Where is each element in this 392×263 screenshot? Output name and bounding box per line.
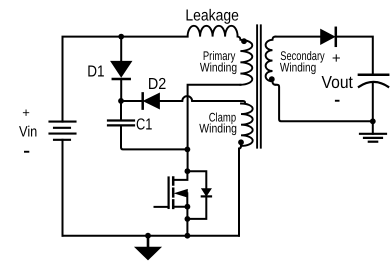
transistor Q1 MOSFET gate bar — [168, 178, 170, 208]
node top D1 junction — [118, 34, 124, 40]
wire left rail bottom — [62, 140, 64, 236]
svg-text:Winding: Winding — [280, 61, 316, 75]
wire top rail from Vin+ to leakage — [63, 37, 188, 122]
svg-text:D1: D1 — [87, 64, 104, 81]
node ground junction — [145, 233, 151, 239]
diode body (of MOSFET) — [202, 189, 211, 196]
wire secondary top to output diode — [276, 36, 321, 38]
capacitor output polarized — [359, 74, 388, 77]
diode D1 vertical — [120, 37, 122, 61]
wire clamp bottom to bottom rail — [239, 146, 241, 236]
wire D2 to clamp with hop over drain line — [159, 96, 245, 103]
polarity dot clamp — [238, 139, 244, 145]
diode D2 horizontal pointing left — [141, 93, 144, 108]
svg-text:D2: D2 — [148, 76, 166, 93]
node source — [185, 204, 191, 210]
ground IEC output — [360, 133, 386, 135]
svg-text:+: + — [22, 105, 30, 120]
wire primary bottom to drain vertical — [188, 85, 241, 170]
transistor Q1 MOSFET source lead — [173, 206, 187, 208]
svg-text:C1: C1 — [136, 117, 152, 134]
wire body diode to source node — [187, 196, 206, 219]
transistor Q1 MOSFET channel segments — [172, 178, 175, 185]
wire drain node to body diode — [187, 171, 206, 188]
wire D2 branch — [121, 100, 143, 102]
svg-text:Winding: Winding — [200, 61, 237, 75]
battery Vin — [50, 122, 76, 140]
wire bottom rail — [63, 235, 240, 237]
ground main (filled triangle) — [147, 236, 150, 247]
junction and polarity dots — [118, 34, 376, 239]
diode output (pointing right) — [321, 30, 335, 45]
node drain / body diode — [185, 168, 191, 174]
polarity dot secondary — [269, 76, 275, 82]
transistor Q1 MOSFET drain lead — [173, 171, 187, 180]
node source/bottom rail — [185, 233, 191, 239]
wire source down to bottom rail — [186, 207, 188, 236]
svg-text:Vout: Vout — [322, 72, 354, 92]
label Vout minus — [335, 100, 340, 102]
svg-text:Winding: Winding — [199, 121, 237, 135]
svg-text:+: + — [332, 50, 341, 67]
inductor primary winding (vertical, humps bulge right) — [238, 37, 253, 85]
node body diode bottom — [185, 216, 191, 222]
transistor Q1 MOSFET gate lead — [155, 206, 169, 208]
clamp winding inductor (vertical, humps bulge right) — [241, 104, 253, 146]
label Vin minus — [24, 151, 29, 153]
node D1/D2/C1 junction — [118, 98, 124, 104]
svg-text:Vin: Vin — [19, 124, 37, 141]
secondary winding inductor (vertical, humps bulge left) — [266, 37, 276, 85]
inductor leakage winding (4 humps) — [188, 26, 238, 37]
polarity dot primary — [241, 38, 247, 44]
transistor Q1 MOSFET body arrow — [175, 190, 187, 197]
svg-text:Leakage: Leakage — [185, 8, 239, 25]
wire secondary bottom loop — [276, 85, 373, 122]
node output bottom junction — [370, 118, 376, 124]
wire cap bottom to ground — [372, 82, 374, 134]
transformer core — [256, 25, 258, 147]
node C1/drain junction — [185, 147, 191, 153]
wire diode to output cap — [336, 37, 373, 75]
capacitor C1 — [120, 101, 122, 119]
